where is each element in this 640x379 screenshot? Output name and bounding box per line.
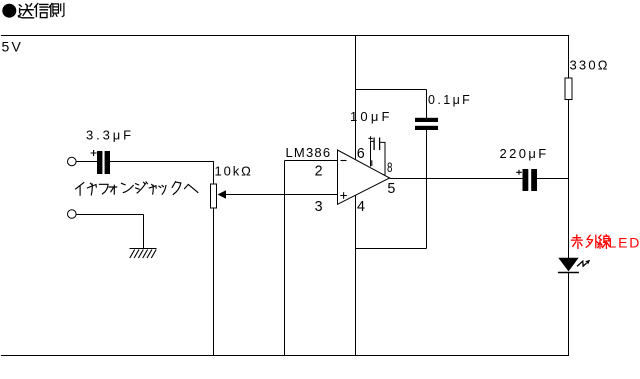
svg-text:330Ω: 330Ω [570,57,610,72]
katakana ン [122,183,134,192]
wire pin 6 from 5V rail [355,36,357,160]
katakana ォ [109,185,117,194]
wire C4 to LED branch [537,178,569,180]
svg-text:LED: LED [609,234,640,250]
LED D1 infrared [558,258,579,273]
wire terminal to C1 [76,161,97,163]
svg-text:2: 2 [315,164,323,180]
svg-text:3: 3 [315,199,323,215]
katakana ジ [136,182,148,193]
capacitor C4 220μF polarity + [516,170,522,175]
wire 5V top rail [1,35,569,37]
kanji 側 [49,4,52,17]
ground symbol (earth) [130,249,157,259]
label 赤外線LED (red) [571,235,609,249]
input jack terminal top [68,157,77,166]
katakana ク [172,182,181,195]
katakana ヤ [87,183,96,195]
title bullet [2,4,16,18]
katakana ッ [159,185,166,194]
svg-text:10kΩ: 10kΩ [215,163,253,178]
katakana フ [99,184,108,194]
katakana ャ [149,184,156,194]
op-amp plus input mark [340,192,347,199]
wire C3 bottom lead [426,130,428,249]
wire wiper to pin 3 [226,194,338,196]
potentiometer VR1 10kΩ body [211,184,217,208]
katakana ヘ [185,184,198,192]
capacitor C2 10μF (pins 1-8) [371,138,386,176]
potentiometer VR1 wiper arrow [218,190,227,199]
wire C1 to VR1 [110,161,214,163]
title text 送信側 (drawn strokes) [19,3,64,17]
LED emission arrow [577,260,590,267]
wire right rail lower (LED to ground) [568,273,570,356]
svg-text:8: 8 [387,159,393,175]
wire right rail upper (5V to R 330) [568,36,570,79]
capacitor C3 0.1μF plates [415,118,438,130]
input jack terminal bottom [68,210,77,219]
katakana イ [76,183,84,196]
svg-text:10μF: 10μF [350,109,393,124]
capacitor C2 polarity + [368,136,372,140]
wire VR1 top lead [213,162,215,185]
svg-text:0.1μF: 0.1μF [428,93,472,107]
wire terminal to ground [76,215,143,249]
kanji 線 [598,235,603,248]
capacitor C1 3.3μF plates [97,151,110,174]
svg-text:220μF: 220μF [500,146,549,161]
wire VR1 bottom lead to ground rail [213,208,215,356]
wire ground bottom rail [1,355,569,357]
label イヤフォンジャックへ (drawn strokes) [76,182,198,196]
capacitor C4 220μF plates [523,169,538,191]
kanji 送 [19,4,34,18]
op-amp minus input mark [341,160,347,162]
svg-text:6: 6 [357,146,365,162]
kanji 外 [586,235,598,247]
svg-text:5V: 5V [2,39,24,55]
svg-text:3.3μF: 3.3μF [86,128,134,143]
svg-text:5: 5 [387,181,395,197]
wire right rail middle (R 330 to LED) [568,100,570,259]
wire pin 5 output to C4 [390,178,523,180]
wire ground link to C3 [356,248,427,250]
pin label 1 [371,160,373,166]
kanji 赤 [571,235,582,248]
capacitor C1 3.3μF polarity + [91,150,97,156]
kanji 信 [35,4,48,17]
resistor 330Ω [565,78,572,100]
svg-text:4: 4 [357,199,365,215]
wire ground branch vertical [284,161,286,356]
wire pin 4 to ground rail [355,196,357,356]
op-amp U1 LM386 triangle [338,150,390,204]
wire C3 top lead [426,90,428,119]
svg-text:LM386: LM386 [286,145,332,160]
wire 5V link to C3 [356,89,427,91]
wire pin 2 to ground branch [285,160,339,162]
